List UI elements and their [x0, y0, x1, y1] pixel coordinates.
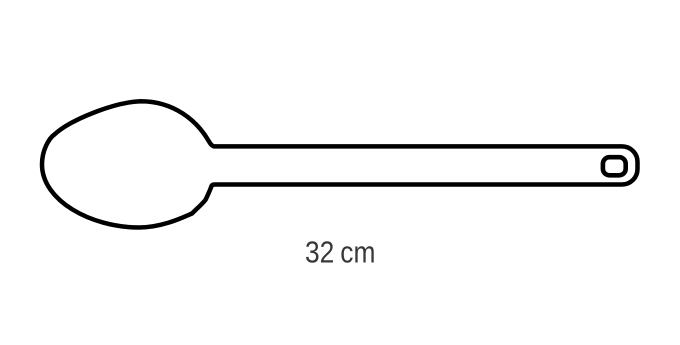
svg-text:32 cm: 32 cm [305, 235, 375, 269]
spoon outline [42, 101, 638, 227]
hanging hole [603, 157, 626, 175]
